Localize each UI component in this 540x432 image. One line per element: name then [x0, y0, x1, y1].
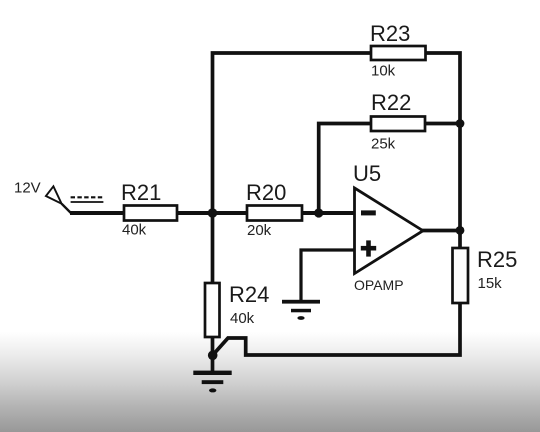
svg-text:R24: R24 [229, 282, 269, 307]
svg-text:40k: 40k [122, 222, 147, 239]
svg-text:10k: 10k [371, 63, 396, 80]
svg-text:15k: 15k [478, 275, 503, 292]
svg-text:20k: 20k [247, 222, 272, 239]
svg-text:U5: U5 [353, 161, 381, 186]
svg-text:25k: 25k [371, 136, 396, 153]
svg-text:R23: R23 [370, 21, 410, 46]
svg-text:OPAMP: OPAMP [354, 277, 404, 293]
svg-text:12V: 12V [14, 180, 41, 197]
svg-text:R21: R21 [121, 180, 161, 205]
svg-text:R22: R22 [371, 90, 411, 115]
svg-text:R20: R20 [246, 180, 286, 205]
svg-text:R25: R25 [477, 247, 517, 272]
svg-text:40k: 40k [230, 310, 255, 327]
